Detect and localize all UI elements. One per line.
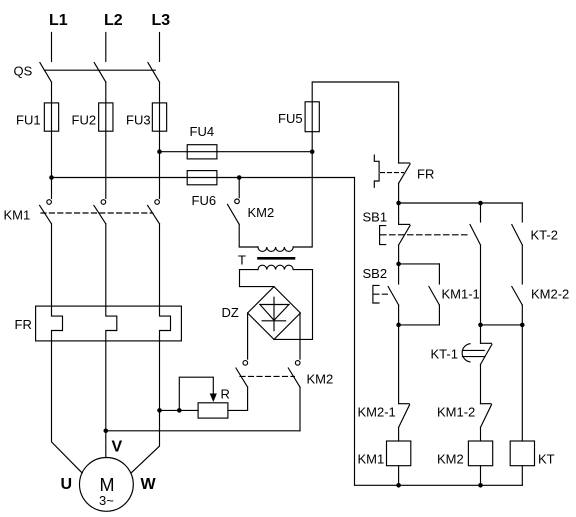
wire FU6 bus: [52, 177, 355, 179]
wire FR to motor U: [52, 341, 83, 473]
wire KT-1 to KM1-2: [480, 364, 482, 403]
svg-text:FU3: FU3: [126, 113, 151, 128]
wire DC injection line: [106, 430, 300, 432]
fuse FU5: [305, 102, 319, 132]
button SB1 label: [363, 210, 388, 225]
button SB2 actuator: [373, 285, 390, 303]
wire FR to motor V: [105, 341, 107, 458]
resistor R wiper arrow: [179, 377, 217, 410]
wire secondary left to DZ top: [240, 270, 275, 287]
coil KM1 label: [358, 452, 385, 467]
thermal relay FR actuator hook: [374, 155, 403, 187]
contactor contact KM1-2 label: [437, 405, 475, 420]
wire KM1 pole2 to FR box: [105, 224, 107, 306]
rectifier DZ label: [222, 305, 239, 320]
resistor R: [198, 403, 228, 418]
svg-text:SB2: SB2: [363, 266, 388, 281]
button SB2 NO contact: [388, 264, 399, 325]
node junction KM2-2 bottom: [520, 323, 525, 328]
node junction SB1/SB2: [396, 262, 401, 267]
svg-text:R: R: [221, 387, 230, 402]
wire primary left to KM2 aux: [239, 224, 258, 247]
wire L3 stub: [159, 33, 161, 62]
thermal relay FR heater 2: [106, 306, 117, 341]
svg-text:KT-1: KT-1: [431, 347, 458, 362]
svg-text:KT: KT: [538, 452, 555, 467]
svg-text:3~: 3~: [99, 493, 114, 508]
thermal relay FR contact label: [417, 167, 434, 182]
wire QS to FU3: [159, 82, 161, 103]
contactor contact KM2-1: [399, 325, 410, 441]
wire KM1 coil to bus: [398, 466, 400, 486]
wire KM2 right contact to DC line: [299, 387, 301, 431]
contactor KM2 brake pole 1 contact: [236, 361, 248, 388]
coil KM2 label: [437, 452, 464, 467]
contactor KM1 pole 2 contact: [94, 200, 106, 224]
node junction top rail / SB1-NO: [478, 201, 483, 206]
switch QS label: [14, 64, 33, 79]
coil KM2: [468, 441, 492, 466]
svg-text:KT-2: KT-2: [531, 228, 558, 243]
wire QS to FU1: [51, 82, 53, 103]
contactor contact KM1-1: [399, 264, 440, 325]
coil KT label: [538, 452, 555, 467]
contactor KM2 brake pole 2 contact: [288, 361, 300, 388]
motor terminal W label: [141, 476, 157, 493]
svg-text:KM1-1: KM1-1: [442, 287, 480, 302]
wire junction link: [481, 324, 523, 326]
relay contact KT-2 label: [531, 228, 558, 243]
wire L1 stub: [51, 33, 53, 62]
contactor KM1 pole 1 contact: [40, 200, 52, 224]
svg-text:L2: L2: [104, 12, 123, 29]
wire KM1 pole1 to FR box: [51, 224, 53, 306]
wire FU5 bottom to junction: [311, 132, 313, 152]
contactor KM2 brake label: [307, 372, 334, 387]
switch QS link bar: [45, 69, 156, 71]
contactor contact KM2-2 label: [531, 287, 569, 302]
node junction L3/FU4: [157, 149, 162, 154]
node junction V / DC line: [104, 429, 109, 434]
fuse FU4: [187, 145, 217, 159]
contactor KM1 link dashed: [41, 212, 153, 214]
thermal relay FR heater 3: [160, 306, 171, 341]
wire QS to FU2: [105, 82, 107, 103]
rectifier DZ diamond: [248, 287, 301, 340]
svg-text:U: U: [61, 476, 73, 493]
contactor KM2 brake link dashed: [240, 375, 294, 377]
motor terminal V label: [112, 439, 123, 456]
svg-text:KM2: KM2: [437, 452, 464, 467]
svg-text:M: M: [100, 475, 115, 495]
fuse FU6: [187, 171, 217, 185]
svg-text:KM1: KM1: [358, 452, 385, 467]
fuse FU2 label: [72, 113, 97, 128]
contactor contact KM2-1 label: [358, 405, 396, 420]
svg-text:FU6: FU6: [192, 193, 217, 208]
relay contact KT-2: [512, 203, 523, 284]
motor 3~ label: [99, 493, 114, 508]
fuse FU4 label: [190, 124, 215, 139]
transformer T core: [259, 257, 295, 260]
wire FU5 top to FR contact: [312, 82, 398, 163]
transformer T secondary coil: [258, 265, 293, 269]
svg-text:SB1: SB1: [363, 210, 388, 225]
coil KM1: [387, 441, 411, 466]
node junction FU4/FU5: [310, 149, 315, 154]
contactor contact KM1-2: [481, 404, 492, 441]
node junction SB2 bottom: [396, 323, 401, 328]
motor M circle: [80, 458, 134, 512]
wire primary right to FU4/FU5 junction: [293, 152, 312, 247]
node junction FU6 bus / KM2 aux: [237, 175, 242, 180]
switch QS pole 2 blade: [94, 63, 106, 83]
contactor contact KM1-1 label: [442, 287, 480, 302]
wire KT coil to bus: [521, 466, 523, 486]
relay contact KT-1 label: [431, 347, 458, 362]
wire FR to motor W: [131, 341, 160, 473]
contactor KM1 pole 3 contact: [148, 200, 160, 224]
button SB1 actuator: [380, 226, 470, 245]
svg-text:FU1: FU1: [16, 113, 41, 128]
resistor R label: [221, 387, 230, 402]
wire secondary right to DZ bottom: [274, 270, 313, 340]
svg-text:KM1: KM1: [4, 208, 31, 223]
coil KT: [510, 441, 534, 466]
relay contact KT-1 delayed: [462, 325, 492, 365]
wire DZ left corner to KM2 left contact: [247, 313, 249, 359]
svg-text:T: T: [238, 253, 246, 268]
button SB1 NC contact: [399, 203, 411, 264]
wire control top rail: [399, 202, 523, 204]
switch QS pole 1 blade: [40, 63, 52, 83]
svg-text:FU2: FU2: [72, 113, 97, 128]
node junction W / R line: [157, 408, 162, 413]
wire FU3 down to KM1 pole3: [159, 131, 161, 198]
thermal relay FR label: [15, 317, 32, 332]
transformer T primary coil: [258, 247, 293, 251]
fuse FU1 label: [16, 113, 41, 128]
svg-text:L3: L3: [152, 12, 171, 29]
fuse FU3: [152, 103, 166, 131]
button SB1 NO contact: [470, 203, 481, 325]
thermal relay FR NC contact: [399, 163, 411, 203]
wire L2 stub: [105, 33, 107, 62]
svg-text:FU5: FU5: [278, 111, 303, 126]
wire KT column: [521, 325, 523, 441]
node L3 label: [152, 12, 171, 29]
motor terminal U label: [61, 476, 73, 493]
svg-text:KM1-2: KM1-2: [437, 405, 475, 420]
node junction SB1-NO bottom: [478, 323, 483, 328]
svg-text:DZ: DZ: [222, 305, 239, 320]
svg-text:FR: FR: [15, 317, 32, 332]
node junction KM2 bus: [478, 483, 483, 488]
switch QS pole 3 blade: [148, 63, 160, 83]
node L1 label: [49, 12, 68, 29]
fuse FU2: [99, 103, 113, 131]
wire DZ right corner to KM2 right contact: [299, 313, 301, 359]
fuse FU3 label: [126, 113, 151, 128]
contactor KM1 label: [4, 208, 31, 223]
fuse FU5 label: [278, 111, 303, 126]
node junction L1/FU6: [49, 175, 54, 180]
fuse FU6 label: [192, 193, 217, 208]
svg-text:L1: L1: [49, 12, 68, 29]
rectifier DZ diode symbol: [260, 297, 289, 330]
wire KM2 coil to bus: [480, 466, 482, 486]
node L2 label: [104, 12, 123, 29]
contactor contact KM2-2: [512, 287, 523, 325]
contactor KM2 aux contact: [228, 178, 240, 225]
node junction wiper tap: [177, 408, 182, 413]
svg-text:W: W: [141, 476, 157, 493]
svg-text:KM2-1: KM2-1: [358, 405, 396, 420]
thermal relay FR box: [36, 306, 182, 341]
wire FU2 down to KM1 pole2: [105, 131, 107, 198]
motor M label: [100, 475, 115, 495]
svg-text:KM2-2: KM2-2: [531, 287, 569, 302]
svg-text:FU4: FU4: [190, 124, 215, 139]
transformer T label: [238, 253, 246, 268]
wire R to KM2 left contact: [228, 387, 248, 410]
svg-text:KM2: KM2: [307, 372, 334, 387]
contactor KM2 aux label: [248, 205, 275, 220]
wire FU1 down to KM1 pole1: [51, 131, 53, 198]
node junction FR/SB1: [396, 201, 401, 206]
button SB2 label: [363, 266, 388, 281]
wire control right rail: [355, 178, 523, 486]
svg-text:V: V: [112, 439, 123, 456]
wire W line to resistor R: [160, 409, 199, 411]
node junction KM1 bus: [396, 483, 401, 488]
svg-text:FR: FR: [417, 167, 434, 182]
thermal relay FR heater 1: [52, 306, 63, 341]
svg-text:QS: QS: [14, 64, 33, 79]
fuse FU1: [44, 103, 58, 131]
wire KM1 pole3 to FR box: [159, 224, 161, 306]
wire FU4 branch: [160, 151, 313, 153]
svg-text:KM2: KM2: [248, 205, 275, 220]
